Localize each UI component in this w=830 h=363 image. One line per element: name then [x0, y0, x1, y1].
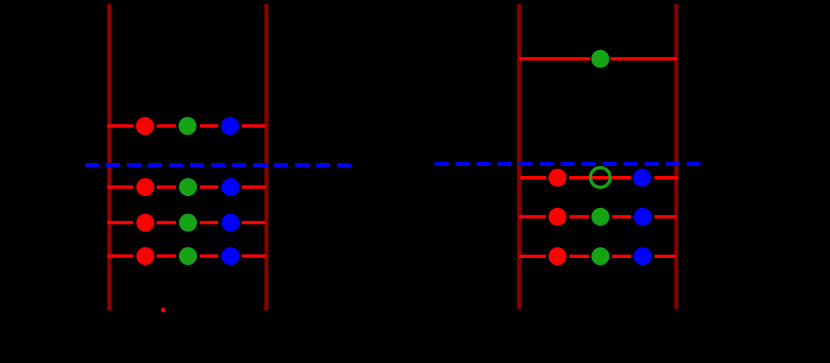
right level 1 line segments — [520, 176, 678, 179]
left level D dots — [136, 247, 154, 265]
Fermi level dashed line (right) — [435, 162, 701, 166]
Fermi level dashed line (left) — [85, 163, 351, 167]
right top level green dot (excited electron) — [591, 50, 609, 68]
left level A line segments — [107, 124, 265, 127]
right well wall (right) — [674, 4, 678, 309]
right well wall (left) — [517, 4, 521, 309]
tiny red dot (stray marker) — [161, 307, 165, 312]
left level B line segments — [107, 185, 265, 188]
left level C line segments — [107, 221, 265, 224]
left well wall (left) — [107, 4, 111, 311]
right level 1 dots: red, open green (hole), blue — [549, 169, 567, 187]
left level D line segments — [107, 254, 265, 257]
left well wall (right) — [264, 4, 268, 311]
right level 3 dots — [549, 247, 567, 265]
right level 2 line segments — [519, 215, 676, 218]
left level C dots — [136, 214, 154, 232]
right top level (solid, gap at dot) — [521, 57, 676, 60]
right level 3 line segments — [519, 255, 676, 258]
left level B dots — [136, 178, 154, 196]
left level A dots — [136, 117, 154, 135]
right level 2 dots — [549, 208, 567, 226]
